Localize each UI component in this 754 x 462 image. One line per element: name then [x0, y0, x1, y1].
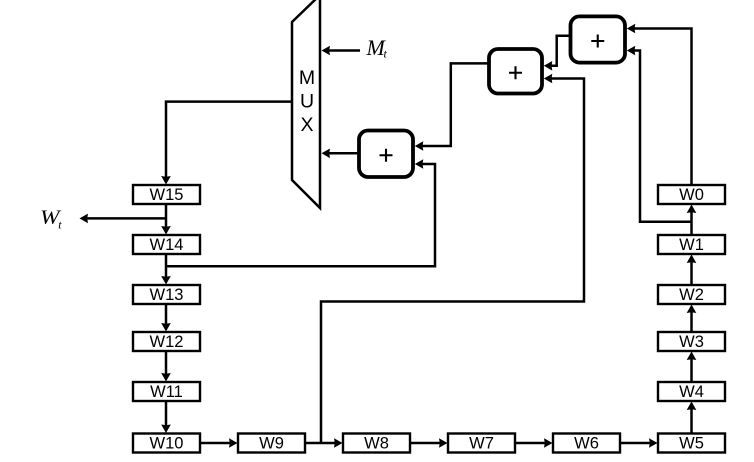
svg-text:W11: W11	[150, 383, 183, 401]
svg-text:W12: W12	[150, 333, 184, 351]
svg-text:W3: W3	[679, 333, 704, 351]
wire W12 to W11	[161, 351, 171, 382]
wire W9 to W8	[305, 438, 343, 448]
wire W5 to W4	[687, 402, 697, 434]
wire W11 to W10	[161, 401, 171, 433]
register W13	[133, 285, 200, 304]
svg-text:W7: W7	[469, 435, 494, 453]
register W3	[658, 332, 725, 351]
label Mt input	[366, 35, 388, 61]
register W4	[658, 382, 725, 401]
wire W2 to W1	[687, 255, 697, 286]
wire W14 tap to adder U2 input 2	[166, 159, 435, 266]
svg-text:W1: W1	[679, 236, 704, 254]
wire W8 to W7	[410, 438, 448, 448]
register W2	[658, 285, 725, 304]
svg-text:W5: W5	[679, 435, 704, 453]
register W15	[133, 185, 200, 204]
wire adder U3 output to adder U2 input 1	[415, 63, 490, 150]
register W7	[448, 434, 515, 453]
wire mux output to W15	[161, 102, 292, 185]
svg-text:W0: W0	[679, 186, 704, 204]
wire adder U4 output to adder U3 input 1	[544, 36, 571, 71]
svg-text:W9: W9	[259, 435, 284, 453]
wire W14 to W13	[161, 254, 171, 285]
register W1	[658, 235, 725, 254]
wire Wt output branch	[80, 214, 167, 224]
wire W10 to W9	[200, 438, 238, 448]
label Wt output	[40, 207, 62, 232]
wire W0 output to adder U4 input 1	[627, 24, 692, 185]
svg-text:W13: W13	[150, 286, 184, 304]
wire W6 to W5	[620, 438, 658, 448]
wire W7 to W6	[515, 438, 553, 448]
svg-text:W6: W6	[574, 435, 599, 453]
register W12	[133, 332, 200, 351]
register W9	[238, 434, 305, 453]
mux U1	[292, 0, 320, 208]
svg-text:M: M	[299, 67, 315, 89]
wire W3 to W2	[687, 305, 697, 333]
register W14	[133, 235, 200, 254]
adder U4 (+)	[571, 16, 626, 62]
svg-text:U: U	[300, 91, 314, 113]
adder U2 (+)	[359, 131, 413, 178]
svg-text:W4: W4	[679, 383, 704, 401]
wire W15 to W14	[161, 204, 171, 235]
adder U3 (+)	[489, 49, 542, 94]
wire W9 tap to adder U3 input 2	[321, 74, 584, 443]
svg-text:W2: W2	[679, 286, 704, 304]
wire Mt to mux select	[322, 46, 361, 56]
wire W4 to W3	[687, 352, 697, 383]
register W11	[133, 382, 200, 401]
svg-text:W8: W8	[364, 435, 389, 453]
svg-text:X: X	[300, 114, 313, 136]
svg-text:W14: W14	[150, 236, 184, 254]
svg-text:W15: W15	[150, 186, 184, 204]
wire W1 tap to adder U4 input 2	[627, 46, 692, 222]
wire W13 to W12	[161, 304, 171, 332]
register W6	[553, 434, 620, 453]
wire W1 to W0	[687, 205, 697, 236]
register W8	[343, 434, 410, 453]
register W10	[133, 434, 200, 453]
wire adder U2 output to mux input	[322, 149, 361, 159]
register W5	[658, 434, 725, 453]
svg-text:W10: W10	[150, 435, 184, 453]
register W0	[658, 185, 725, 204]
